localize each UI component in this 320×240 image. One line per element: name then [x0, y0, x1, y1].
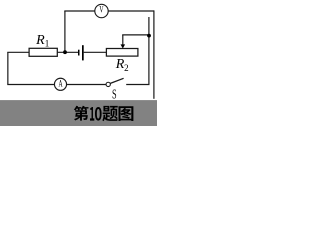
voltmeter circle — [95, 4, 108, 17]
wire top left of voltmeter — [64, 10, 95, 12]
svg-text:R: R — [35, 33, 45, 48]
battery cell long plate — [82, 45, 84, 60]
switch S contact circle — [106, 82, 110, 86]
svg-text:A: A — [59, 78, 63, 89]
wire R1 to battery junction — [57, 51, 78, 53]
wire bottom left segment — [7, 84, 54, 86]
wire top right of voltmeter — [108, 10, 154, 12]
wire middle row left to R1 — [7, 51, 29, 53]
caption bar background — [0, 100, 157, 126]
svg-text:S: S — [112, 88, 117, 102]
wire ammeter to switch — [66, 84, 106, 86]
battery cell short plate — [78, 50, 80, 56]
caption text 第10题图 — [74, 106, 134, 121]
ammeter circle — [54, 78, 66, 90]
rheostat R2 body — [106, 49, 137, 57]
wire switch to inner vertical — [126, 84, 149, 86]
wire inner right vertical — [148, 17, 150, 85]
wire voltmeter branch left vertical — [64, 11, 66, 52]
svg-text:V: V — [99, 4, 103, 15]
svg-text:2: 2 — [124, 63, 129, 73]
node junction dot left of battery — [63, 50, 67, 54]
resistor R1 — [29, 48, 57, 56]
wire wiper horizontal — [122, 34, 149, 36]
rheostat wiper arrowhead — [121, 44, 126, 48]
switch S lever — [110, 78, 123, 83]
wire wiper vertical — [122, 35, 124, 45]
svg-text:1: 1 — [45, 38, 50, 48]
wire battery to R2 — [84, 51, 107, 53]
node junction dot wiper branch — [147, 34, 151, 38]
wire outer right vertical — [153, 10, 155, 98]
wire left vertical — [7, 52, 9, 84]
